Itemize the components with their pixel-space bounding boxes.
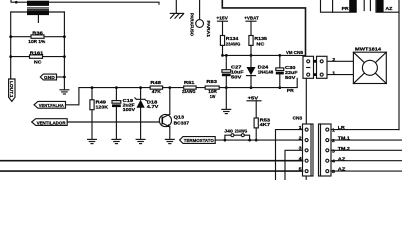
- capacitor C30 top wire: [279, 55, 281, 68]
- earth ground below right column: [59, 90, 69, 94]
- connector CN5 right housing: [317, 56, 328, 78]
- ground below C27: [221, 109, 231, 113]
- wire long to CN3 pin4: [0, 160, 303, 162]
- svg-text:J40: J40: [224, 128, 233, 133]
- node dot left R36: [9, 35, 12, 38]
- svg-text:100V: 100V: [123, 107, 137, 112]
- screw PARA1 wire: [199, 0, 201, 20]
- svg-text:PARAFUSO: PARAFUSO: [189, 13, 194, 36]
- node dot left R161: [9, 55, 12, 58]
- svg-text:CN3: CN3: [293, 115, 303, 120]
- resistor R49 top wire: [91, 88, 93, 100]
- capacitor C27: [222, 70, 231, 73]
- wire +VBAT to R135: [250, 21, 252, 35]
- svg-text:PR: PR: [287, 88, 295, 93]
- wire +15V to R134: [222, 21, 224, 35]
- transformer T1 secondary winding block: [27, 10, 49, 15]
- svg-text:2: 2: [299, 135, 303, 140]
- connector CN5 left housing: [303, 56, 314, 78]
- ground below R49: [87, 139, 97, 143]
- zener D18 top wire: [140, 88, 142, 100]
- wire R134 to rail: [222, 45, 224, 55]
- wire C30 bottom: [279, 74, 281, 87]
- wire CN3 right pin1 LR: [331, 129, 399, 131]
- wire CN3 right pin4 AZ: [331, 160, 402, 162]
- wire transformer secondary right: [49, 11, 64, 13]
- node dot Q13 collector junction: [168, 86, 171, 89]
- resistor R161 NC: [30, 55, 43, 58]
- capacitor C19: [112, 101, 121, 104]
- svg-text:4K7: 4K7: [260, 122, 271, 127]
- svg-text:50V: 50V: [285, 75, 297, 80]
- wire R53 to thermostat wire: [255, 128, 257, 140]
- svg-text:VENTILADOR: VENTILADOR: [37, 120, 67, 125]
- node dot R53 junction: [255, 139, 258, 142]
- CN3 bottom stub: [305, 176, 307, 179]
- node dot R134/rail: [221, 54, 224, 57]
- node dot C19: [115, 86, 118, 89]
- wire CN3 right pin5 AZ: [331, 170, 402, 172]
- svg-text:1: 1: [332, 70, 336, 75]
- diode D24 1N4148 top wire: [250, 55, 252, 67]
- capacitor C30: [276, 68, 284, 71]
- wire CN5 to CN3: [305, 78, 307, 124]
- chassis ground symbol: [170, 13, 183, 18]
- node dot D24/rail: [250, 86, 253, 89]
- wire R49 bottom to ground: [91, 110, 93, 140]
- wire right column: [63, 12, 65, 89]
- svg-text:VM: VM: [286, 50, 293, 55]
- CN5 mating pins: [314, 60, 317, 63]
- svg-text:120K: 120K: [96, 105, 109, 110]
- svg-text:1W: 1W: [210, 94, 216, 99]
- svg-text:10R 1%: 10R 1%: [28, 39, 45, 44]
- wire VENTILADOR to Q13 base: [67, 121, 159, 123]
- svg-text:NC: NC: [256, 41, 265, 46]
- node junction dot on top wire: [15, 1, 18, 4]
- svg-text:4.7V: 4.7V: [147, 104, 160, 109]
- net flag VENT.FALHA: [34, 101, 66, 108]
- svg-text:23AWG: 23AWG: [226, 41, 241, 46]
- transistor Q13 BC337: [159, 114, 171, 127]
- node dot C27/rail2: [225, 86, 228, 89]
- wire CN5 pin2 to motor: [327, 60, 353, 62]
- svg-text:Q13: Q13: [174, 114, 185, 119]
- wire CN3 left pin3: [285, 150, 303, 180]
- wire long to CN3 pin5: [0, 170, 303, 172]
- svg-text:MWT1814: MWT1814: [355, 46, 382, 51]
- resistor R53: [254, 118, 258, 128]
- svg-text:R48: R48: [150, 80, 161, 85]
- wire top-left entering from top edge: [11, 0, 27, 2]
- CN3 left pins: [305, 128, 308, 173]
- CN5 polarity tick: [307, 67, 310, 69]
- svg-text:VENT.FALHA: VENT.FALHA: [39, 103, 65, 108]
- wire Q13 emitter to ground: [169, 127, 171, 139]
- resistor R48: [150, 86, 162, 89]
- capacitor C19 top wire: [115, 88, 117, 101]
- wire R135 to rail: [250, 45, 252, 55]
- wire transformer secondary left: [11, 11, 27, 13]
- wire GND flag to right column: [57, 76, 65, 78]
- net flag LOUT.1: [9, 79, 15, 101]
- svg-text:NC: NC: [34, 59, 42, 64]
- screw PARA1 circle: [196, 20, 204, 28]
- svg-text:R83: R83: [206, 79, 217, 84]
- top-right connector housing B: [376, 0, 399, 12]
- node dot C30/rail: [278, 86, 281, 89]
- svg-text:2: 2: [332, 57, 336, 62]
- CN3 right pins: [326, 128, 329, 173]
- resistor R134: [220, 36, 224, 46]
- net flag VENTILADOR: [32, 119, 67, 126]
- net flag TERMOSTATO: [180, 137, 216, 144]
- diode D24: [247, 67, 256, 75]
- transformer T1 primary winding block: [27, 1, 49, 6]
- ground below C19: [111, 139, 121, 143]
- svg-text:+VBAT: +VBAT: [244, 15, 259, 20]
- resistor R83: [205, 86, 219, 89]
- connector CN3 left housing: [303, 124, 314, 176]
- wire CN5 pin1 to motor: [327, 74, 353, 76]
- wire thermostat to CN3 pin2: [215, 139, 302, 141]
- svg-text:PARA1: PARA1: [206, 21, 211, 38]
- wire CN3 right pin2 TM.1: [331, 139, 402, 141]
- resistor R135 NC: [249, 36, 253, 46]
- wire left column: [10, 12, 12, 79]
- wire top corner from top edge: [222, 0, 305, 56]
- node dot C30 top: [278, 54, 281, 57]
- svg-text:PR: PR: [342, 6, 350, 11]
- wire D18 bottom to ground: [140, 108, 142, 140]
- wire C19 bottom to ground: [115, 107, 117, 139]
- node dot right R36: [63, 35, 66, 38]
- svg-text:LOUT.1: LOUT.1: [9, 81, 14, 98]
- ground below D18: [136, 139, 146, 143]
- svg-text:+15V: +15V: [216, 15, 228, 20]
- wire D24 bottom: [250, 76, 252, 88]
- node dot D18: [139, 86, 142, 89]
- GND net flag: [40, 74, 56, 80]
- capacitor C27 top wire: [225, 55, 227, 69]
- zener diode D18 4.7V: [135, 98, 146, 101]
- jumper J40: [224, 134, 252, 142]
- wire collector: [169, 88, 171, 115]
- svg-text:R36: R36: [32, 30, 43, 35]
- svg-text:R51: R51: [184, 80, 195, 85]
- CN3 right pin numbers: [332, 128, 336, 175]
- svg-text:R49: R49: [96, 99, 107, 104]
- wire R36 row: [11, 36, 65, 38]
- resistor R51: [184, 86, 196, 89]
- svg-text:D24: D24: [258, 64, 269, 69]
- wire CN3 left pin1: [276, 130, 303, 180]
- svg-text:BC337: BC337: [174, 121, 190, 126]
- node dot C27 top: [225, 54, 228, 57]
- svg-text:1N4148: 1N4148: [258, 70, 274, 75]
- wire transformer primary right to chassis area: [49, 2, 159, 4]
- CN5 pin 2 circles: [307, 60, 310, 63]
- top-right dangling pins: [364, 0, 370, 11]
- resistor R49: [90, 100, 94, 110]
- top-right connector housing A: [321, 0, 357, 12]
- ground below Q13: [165, 139, 175, 143]
- svg-text:+5V: +5V: [248, 96, 260, 101]
- wire VM rail: [223, 54, 306, 56]
- svg-text:CN5: CN5: [294, 50, 304, 55]
- svg-text:AZ: AZ: [385, 6, 392, 11]
- CN3 left pin numbers: [299, 125, 303, 172]
- svg-text:TERMOSTATO: TERMOSTATO: [184, 138, 214, 143]
- node dot GND: [63, 76, 66, 79]
- resistor R36: [31, 35, 44, 38]
- connector CN3 right housing: [319, 124, 332, 176]
- chassis ground wire: [175, 0, 177, 13]
- CN3 right wire labels: [338, 125, 351, 172]
- svg-text:R161: R161: [30, 50, 44, 55]
- svg-text:23AWG: 23AWG: [235, 128, 248, 133]
- wire main rail: [79, 78, 297, 87]
- node dot R135/D24/rail: [250, 54, 253, 57]
- CN5 pin 1 circles: [307, 73, 310, 76]
- wire right edge down: [398, 12, 400, 129]
- transformer center tap stub: [37, 15, 39, 22]
- wire CN3 right pin3 TM.2: [331, 149, 402, 151]
- transformer T1 core lines: [27, 8, 49, 9]
- wire VENT.FALHA to rail: [66, 88, 79, 105]
- wire C27 bottom through rail to ground: [225, 76, 227, 109]
- wire R161 row: [11, 56, 65, 58]
- svg-text:47K: 47K: [152, 89, 162, 94]
- svg-text:23AWG: 23AWG: [182, 89, 196, 94]
- svg-text:GND: GND: [44, 75, 56, 80]
- wire +5V to R53: [255, 101, 257, 118]
- node dot right R161: [63, 55, 66, 58]
- node dot R49: [91, 86, 94, 89]
- svg-text:50V: 50V: [231, 75, 243, 80]
